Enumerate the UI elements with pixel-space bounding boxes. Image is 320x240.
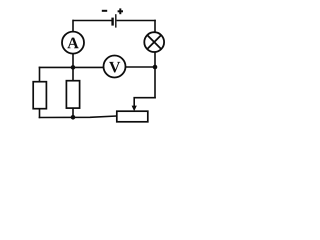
wire ammeter top lead: [72, 20, 74, 32]
wire voltmeter right lead: [126, 66, 156, 68]
label V on voltmeter: [109, 62, 120, 73]
wire wiper feed: horizontal then down: [134, 98, 156, 107]
wire lamp top lead: [154, 20, 156, 33]
wire middle rail left segment: [39, 66, 104, 68]
node junction ammeter/resistor/rail: [71, 65, 76, 70]
label A on ammeter: [67, 38, 78, 49]
resistor R1: [33, 82, 46, 109]
wire left drop to resistor R1: [39, 67, 41, 82]
wire R2 bottom stub: [72, 108, 74, 119]
node junction R2/bottom rail: [71, 115, 76, 120]
battery negative plate (short thick): [111, 18, 113, 26]
resistor R2: [66, 81, 79, 108]
wire lamp bottom lead down to rheostat feed: [154, 52, 156, 98]
ammeter U1: [62, 32, 84, 54]
rheostat R3 body: [117, 111, 148, 122]
battery positive plate (long thin): [115, 14, 117, 27]
label + (positive): [118, 8, 123, 14]
wire R1 bottom stub: [39, 108, 41, 118]
wire top rail right segment: [117, 20, 156, 22]
label - (negative): [102, 10, 107, 12]
wire bottom rail: [39, 116, 117, 118]
wire top rail left segment: [73, 20, 112, 22]
rheostat wiper arrow: [132, 106, 137, 112]
wire drop to resistor R2: [72, 67, 74, 80]
node junction voltmeter/lamp wire: [153, 65, 158, 70]
voltmeter U2: [104, 56, 126, 78]
lamp L1: [144, 32, 164, 52]
wire ammeter bottom lead: [72, 54, 74, 68]
